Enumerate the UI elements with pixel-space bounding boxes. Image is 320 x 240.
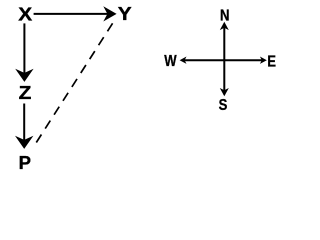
arrowhead at P	[15, 136, 33, 149]
svg-text:P: P	[19, 152, 31, 173]
svg-text:N: N	[220, 7, 229, 24]
wire X to Z	[23, 23, 25, 73]
arrowhead S	[220, 88, 229, 96]
svg-text:Z: Z	[19, 83, 32, 104]
svg-text:E: E	[267, 53, 276, 70]
wire X to Y	[34, 13, 109, 15]
svg-text:X: X	[18, 5, 32, 26]
compass N-S wire	[223, 24, 225, 95]
svg-text:S: S	[219, 97, 228, 114]
arrowhead at Z	[15, 69, 33, 82]
arrowhead E	[260, 57, 267, 64]
dashed wire P to Y	[36, 23, 113, 143]
arrowhead W	[180, 57, 187, 64]
arrowhead N	[220, 22, 229, 30]
wire Z to P	[23, 104, 25, 141]
svg-text:W: W	[164, 53, 177, 70]
arrowhead at Y	[103, 6, 116, 21]
compass W-E wire	[182, 59, 264, 61]
svg-text:Y: Y	[118, 4, 132, 25]
